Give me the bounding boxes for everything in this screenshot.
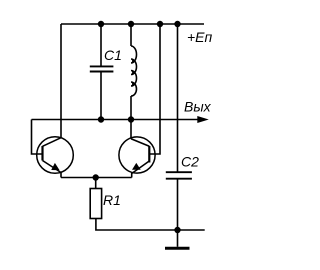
wire C1 bottom lead [100,72,102,120]
transistor Q1 base bar [41,146,43,161]
ground [165,247,190,250]
output arrowhead Вых [197,116,209,123]
wire Q2 collector lead [130,120,132,139]
node junction C2 top [174,21,180,27]
wire L top lead [130,24,132,46]
wire C2 bottom lead [177,179,179,230]
wire top rail +Ep [61,23,204,25]
svg-text:Вых: Вых [184,99,212,115]
node junction L bottom / Q2 collector [128,116,134,122]
wire C2 vertical from rail [177,24,179,172]
transistor Q2 emitter arrow [132,163,141,170]
node junction C1 top [98,21,104,27]
node junction C1 bottom [98,116,104,122]
transistor Q2 emitter line [132,161,150,178]
wire C1 top lead [100,24,102,66]
inductor L coil [131,46,137,96]
wire Q2 base vertical from rail [149,24,160,154]
transistor Q2 base bar [148,146,150,163]
capacitor C2 [166,172,192,179]
resistor R1 [90,189,101,219]
node junction R1 top [93,174,99,180]
svg-text:R1: R1 [103,192,121,208]
wire common emitter line [61,177,132,179]
transistor Q2 circle [119,137,155,173]
wire Q1 base branch [32,120,43,155]
node junction ground [174,227,180,233]
transistor Q1 collector line [43,138,62,147]
wire left vertical rail to Q1 collector [60,24,62,138]
capacitor C1 [90,66,114,71]
svg-text:+Еп: +Еп [187,29,213,45]
wire L bottom lead [130,96,132,120]
wire R1 top lead [95,178,97,189]
transistor Q2 collector line [131,139,149,147]
wire R1 bottom to ground rail [96,219,205,231]
transistor Q1 emitter arrow [51,163,59,170]
svg-text:C2: C2 [181,154,199,170]
transistor Q1 emitter line [43,161,62,178]
node junction L top [128,21,134,27]
svg-text:C1: C1 [104,47,122,63]
wire output feedback line [32,119,200,121]
transistor Q1 circle [37,137,74,174]
wire ground stem [177,230,179,247]
node junction base Q2 top [157,21,163,27]
